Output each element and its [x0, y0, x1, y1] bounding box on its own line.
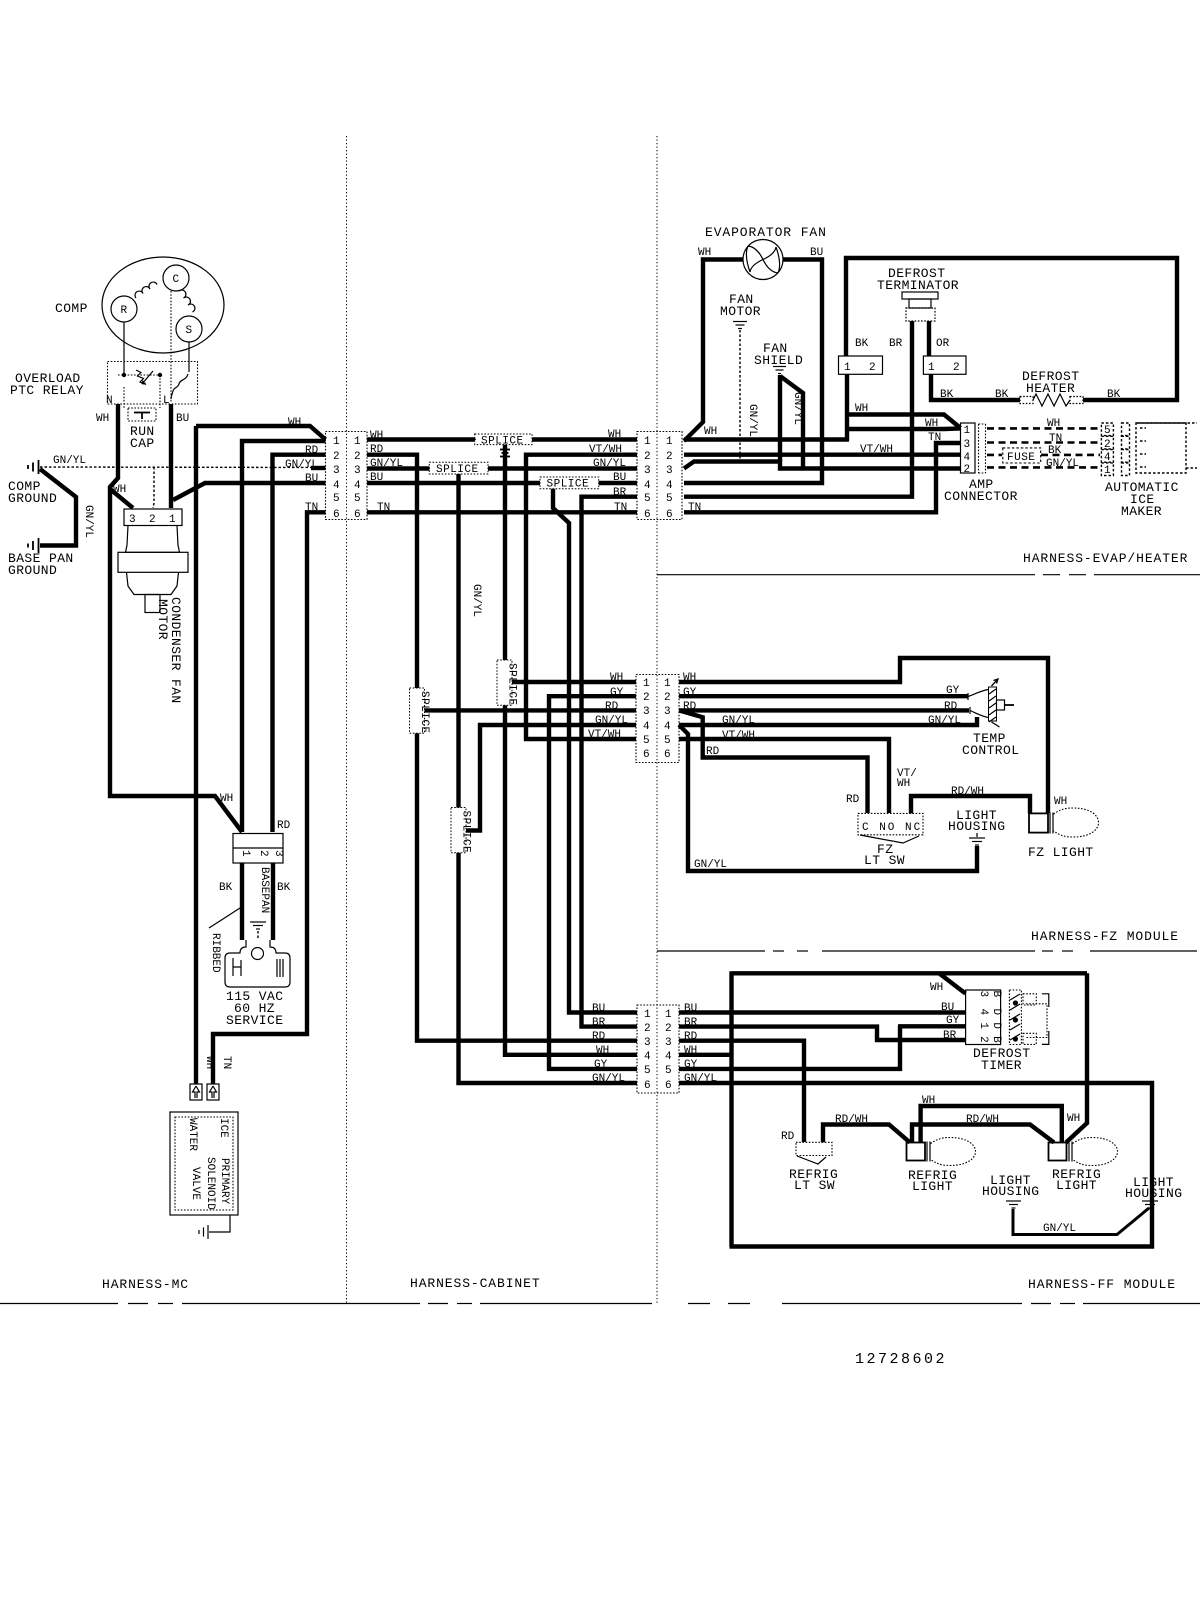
wire S to relay switch: [188, 342, 190, 372]
wire BU evap fan right: [684, 260, 822, 484]
svg-text:1: 1: [665, 1009, 672, 1021]
svg-text:GN/YL: GN/YL: [694, 859, 727, 871]
wire WH connector1 pin1 horizontal A: [196, 426, 326, 440]
svg-text:GN/YL: GN/YL: [53, 455, 86, 467]
wire RD tap to FZ pin3: [425, 708, 637, 712]
wire WH evap fan left: [684, 260, 743, 442]
svg-text:GN/YL: GN/YL: [82, 505, 94, 538]
svg-text:TERMINATOR: TERMINATOR: [877, 278, 959, 293]
wire RD/WH switch NC to FZ light: [911, 796, 1030, 813]
solenoid terminal right: [207, 1084, 219, 1100]
wire GN/YL comp ground to fan pin2 and connector pin 3 (dashed): [40, 467, 326, 508]
svg-text:6: 6: [664, 749, 671, 761]
svg-text:4: 4: [333, 480, 340, 492]
svg-text:6: 6: [644, 509, 651, 521]
wire BU FF pin1 to defrost timer: [679, 1010, 966, 1014]
wire WH vertical down to FF module: [505, 445, 637, 1055]
base pan ground symbol: [28, 538, 39, 553]
svg-text:BK: BK: [1107, 389, 1121, 401]
svg-text:SOLENOID: SOLENOID: [204, 1157, 216, 1210]
wire GY FF pin5 to defrost timer: [679, 1026, 966, 1069]
svg-text:RD: RD: [277, 820, 291, 832]
svg-text:1: 1: [666, 436, 673, 448]
wire BK basepan pin3 to service plug: [271, 863, 275, 940]
svg-text:3: 3: [333, 465, 340, 477]
svg-text:2: 2: [644, 451, 651, 463]
condenser fan motor connector 3 2 1: [124, 509, 182, 526]
svg-text:1: 1: [844, 362, 851, 374]
svg-text:4: 4: [643, 721, 650, 733]
svg-text:BK: BK: [1048, 445, 1062, 457]
svg-text:2: 2: [354, 451, 361, 463]
svg-text:1: 1: [644, 1009, 651, 1021]
dashed wire BK with fuse to ice maker: [987, 454, 1002, 457]
svg-text:D: D: [990, 1022, 1002, 1029]
svg-text:5: 5: [1104, 425, 1111, 437]
svg-text:2: 2: [666, 451, 673, 463]
wire GY FZ pin2 to FF pin5: [549, 696, 637, 1069]
wire GN/YL row3 C1 to C2: [367, 466, 637, 470]
svg-text:TN: TN: [1049, 433, 1062, 445]
svg-text:4: 4: [964, 452, 971, 464]
svg-text:GY: GY: [946, 1015, 960, 1027]
svg-text:1: 1: [354, 436, 361, 448]
wire BK basepan pin1 to service plug: [240, 863, 244, 940]
svg-text:RIBBED: RIBBED: [209, 933, 221, 973]
wire WH C2 pin1 to junction: [684, 437, 849, 441]
wire C to relay L (dotted): [170, 291, 172, 403]
wire RD connector1 pin2 to basepan pin3: [273, 455, 326, 832]
relay switch contact: [171, 374, 188, 399]
wire TN row6 C1 to C2: [367, 510, 637, 514]
vertical splice on GN/YL wire: [451, 804, 472, 857]
svg-text:MOTOR: MOTOR: [155, 599, 170, 640]
svg-text:RD/WH: RD/WH: [835, 1114, 868, 1126]
svg-text:BU: BU: [613, 472, 626, 484]
svg-text:PRIMARY: PRIMARY: [218, 1158, 230, 1205]
svg-text:LT SW: LT SW: [794, 1178, 835, 1193]
svg-text:1: 1: [964, 425, 971, 437]
svg-text:L: L: [163, 395, 170, 407]
wire BR FF pin2 to defrost timer: [679, 1027, 966, 1040]
svg-text:6: 6: [665, 1080, 672, 1092]
svg-text:3: 3: [666, 465, 673, 477]
PTC relay internal contact line: [118, 374, 160, 376]
svg-text:HARNESS-CABINET: HARNESS-CABINET: [410, 1276, 541, 1291]
svg-text:4: 4: [666, 480, 673, 492]
svg-text:RD: RD: [846, 794, 860, 806]
ice maker connector pins 5 2 4 1: [1101, 423, 1129, 477]
svg-text:WH: WH: [1054, 796, 1067, 808]
svg-text:CONNECTOR: CONNECTOR: [944, 489, 1018, 504]
svg-text:RD/WH: RD/WH: [966, 1114, 999, 1126]
svg-text:WH: WH: [220, 793, 233, 805]
svg-text:1: 1: [977, 1022, 989, 1029]
connector C2 body: [637, 432, 682, 520]
svg-text:BK: BK: [219, 882, 233, 894]
harness bottom boundary line: [0, 1303, 1200, 1305]
svg-text:3: 3: [664, 706, 671, 718]
wire WH heater connector to AMP pin1: [847, 374, 961, 441]
svg-text:4: 4: [977, 1009, 989, 1016]
svg-text:BK: BK: [855, 338, 869, 350]
svg-text:LT SW: LT SW: [864, 853, 905, 868]
winding coil R-C: [135, 282, 157, 298]
svg-text:RD: RD: [592, 1031, 606, 1043]
svg-text:TN: TN: [220, 1056, 232, 1069]
timer motor bracket: [1023, 994, 1036, 1005]
dashed wire WH to ice maker: [987, 427, 1100, 430]
wire RD FZ pin3 to FZ light switch C: [679, 710, 868, 813]
FZ light switch flap: [860, 835, 919, 843]
svg-text:BU: BU: [941, 1002, 954, 1014]
svg-text:FZ LIGHT: FZ LIGHT: [1028, 845, 1094, 860]
svg-text:BU: BU: [305, 473, 318, 485]
svg-text:WH: WH: [925, 418, 938, 430]
svg-text:5: 5: [354, 493, 361, 505]
svg-text:1: 1: [1104, 465, 1111, 477]
compressor terminal C: [163, 265, 189, 291]
wire GN/YL splice tap up to FZ pin4: [466, 725, 636, 831]
wire WH row1 C1 to C2: [367, 437, 637, 441]
svg-text:2: 2: [257, 850, 269, 857]
svg-text:GN/YL: GN/YL: [592, 1073, 625, 1085]
svg-text:TN: TN: [688, 502, 701, 514]
wire GN/YL fan shield diagonal branch: [780, 376, 803, 469]
svg-text:SHIELD: SHIELD: [754, 353, 803, 368]
wire VT/WH C2 pin2 to AMP pin4: [684, 453, 961, 457]
svg-text:SPLICE: SPLICE: [506, 663, 518, 706]
svg-text:BR: BR: [943, 1030, 957, 1042]
wire GN/YL stub at connector pin 3: [311, 466, 326, 470]
comp ground symbol: [28, 460, 39, 474]
AMP connector body: [961, 423, 976, 473]
AMP connector mating half (dashed): [979, 424, 986, 473]
solenoid terminal left: [190, 1084, 202, 1100]
svg-text:RD: RD: [305, 445, 319, 457]
svg-text:4: 4: [644, 480, 651, 492]
svg-text:GN/YL: GN/YL: [746, 404, 758, 437]
refrig light 1 bulb: [907, 1138, 976, 1166]
svg-text:BU: BU: [592, 1003, 605, 1015]
wire GN/YL fan motor ground (dashed): [739, 330, 741, 460]
wire RD/WH light1 to light2: [912, 1125, 1054, 1143]
fan motor ground symbol: [733, 322, 747, 329]
ice water primary solenoid valve box: [170, 1112, 238, 1215]
svg-text:RD: RD: [605, 701, 619, 713]
wire BU row4 C1 to splice to C2: [367, 481, 637, 485]
svg-text:2: 2: [665, 1023, 672, 1035]
svg-text:5: 5: [666, 493, 673, 505]
svg-text:ICE: ICE: [217, 1118, 229, 1138]
svg-text:HARNESS-FZ MODULE: HARNESS-FZ MODULE: [1031, 929, 1179, 944]
wire TN connector1 pin6 to solenoid: [213, 512, 326, 1084]
wire GN/YL housing1 to housing2: [1013, 1208, 1149, 1235]
svg-text:B: B: [990, 1036, 1002, 1043]
svg-text:2: 2: [149, 514, 156, 526]
svg-text:COMP: COMP: [55, 301, 88, 316]
svg-text:3: 3: [644, 1037, 651, 1049]
svg-text:1: 1: [664, 678, 671, 690]
svg-text:2: 2: [953, 362, 960, 374]
svg-text:N: N: [106, 395, 113, 407]
svg-text:GN/YL: GN/YL: [928, 715, 961, 727]
overload PTC relay box: [108, 362, 198, 405]
light housing ground: [969, 833, 985, 845]
svg-text:3: 3: [354, 465, 361, 477]
svg-text:WH: WH: [855, 403, 868, 415]
svg-text:GN/YL: GN/YL: [285, 459, 318, 471]
compressor terminal R: [111, 296, 137, 322]
svg-text:GY: GY: [946, 685, 960, 697]
run capacitor RUN CAP: [128, 408, 156, 421]
svg-text:2: 2: [664, 692, 671, 704]
svg-text:3: 3: [977, 991, 989, 998]
wire BR corner row5 to FF pin2: [582, 497, 638, 1027]
svg-text:1: 1: [333, 436, 340, 448]
svg-text:MOTOR: MOTOR: [720, 304, 761, 319]
svg-text:3: 3: [129, 514, 136, 526]
svg-text:WH: WH: [1067, 1113, 1080, 1125]
WH splice tap mark: [500, 450, 510, 457]
svg-text:HOUSING: HOUSING: [982, 1184, 1039, 1199]
svg-text:GN/YL: GN/YL: [791, 392, 803, 425]
svg-text:GN/YL: GN/YL: [1043, 1223, 1076, 1235]
svg-text:WH: WH: [922, 1095, 935, 1107]
svg-text:4: 4: [644, 1051, 651, 1063]
harness FZ boundary line: [657, 950, 1197, 952]
splice on GN/YL row: [425, 462, 493, 476]
svg-text:RD: RD: [781, 1131, 795, 1143]
svg-text:GN/YL: GN/YL: [1046, 458, 1079, 470]
svg-text:HOUSING: HOUSING: [948, 819, 1005, 834]
svg-text:2: 2: [643, 692, 650, 704]
wire BK right connector to heater: [931, 374, 1020, 400]
svg-text:S: S: [186, 325, 193, 337]
wire VT/WH corner row2 to FZ pin5: [526, 455, 637, 739]
svg-text:5: 5: [643, 735, 650, 747]
svg-text:BK: BK: [940, 389, 954, 401]
svg-text:6: 6: [643, 749, 650, 761]
light housing 2 ground: [1142, 1201, 1158, 1208]
vertical splice on RD wire: [410, 685, 431, 738]
wire RD/WH switch to refrig light 1: [823, 1125, 910, 1143]
condenser fan motor body: [126, 526, 180, 553]
svg-text:6: 6: [666, 509, 673, 521]
connector C1 body: [326, 432, 368, 520]
svg-text:1: 1: [644, 436, 651, 448]
basepan connector: [233, 834, 283, 864]
wire BK defrost heater loop: [846, 258, 1177, 400]
fuse box: [1003, 448, 1041, 463]
connector C2 pin numbers: [644, 436, 673, 521]
svg-text:OR: OR: [936, 338, 950, 350]
winding coil C-S: [179, 290, 195, 312]
defrost heater resistor: [1020, 394, 1083, 406]
svg-text:CONTROL: CONTROL: [962, 743, 1019, 758]
svg-text:BR: BR: [592, 1017, 606, 1029]
heater connector left 1 2: [839, 356, 883, 374]
harness evap/heater boundary line: [657, 574, 1200, 576]
svg-text:WH: WH: [698, 247, 711, 259]
svg-text:5: 5: [644, 493, 651, 505]
svg-text:TN: TN: [928, 432, 941, 444]
ice maker body (dashed): [1136, 423, 1186, 473]
wire TN C2 pin6 to AMP pin3: [684, 443, 961, 512]
svg-text:WH: WH: [596, 1045, 609, 1057]
svg-text:TN: TN: [614, 502, 627, 514]
temp control symbol: [968, 679, 1014, 727]
svg-text:HEATER: HEATER: [1026, 381, 1075, 396]
wire WH FZ pin1 to FZ light: [679, 658, 1048, 813]
PTC element symbol: [136, 370, 146, 385]
wire BR terminator to C2 pin5: [684, 321, 912, 497]
wire GN/YL fan shield ground: [778, 375, 782, 462]
svg-text:VT/WH: VT/WH: [589, 444, 622, 456]
wire R to relay: [123, 322, 125, 374]
svg-text:WH: WH: [1047, 418, 1060, 430]
wire RD row2 from C1 down to FF pin3: [367, 455, 637, 1041]
svg-text:5: 5: [665, 1065, 672, 1077]
svg-text:4: 4: [354, 480, 361, 492]
heater connector right 1 2: [923, 356, 966, 374]
svg-text:GN/YL: GN/YL: [470, 584, 482, 617]
svg-text:R: R: [121, 305, 128, 317]
svg-text:2: 2: [644, 1023, 651, 1035]
svg-text:6: 6: [354, 509, 361, 521]
115 VAC service plug: [225, 940, 290, 987]
light housing 1 ground: [1006, 1201, 1021, 1208]
solenoid ground wire: [209, 1215, 230, 1232]
svg-text:12728602: 12728602: [855, 1351, 947, 1368]
svg-text:HARNESS-FF MODULE: HARNESS-FF MODULE: [1028, 1277, 1176, 1292]
svg-text:4: 4: [665, 1051, 672, 1063]
svg-text:WH: WH: [113, 484, 126, 496]
connector C3 (FZ) body: [636, 675, 679, 763]
svg-text:GY: GY: [610, 687, 624, 699]
harness divider vertical MC/cabinet: [346, 136, 348, 1303]
svg-text:HOUSING: HOUSING: [1125, 1186, 1182, 1201]
svg-text:2: 2: [869, 362, 876, 374]
svg-text:SPLICE: SPLICE: [481, 435, 524, 447]
svg-text:WH: WH: [930, 982, 943, 994]
svg-text:1: 1: [643, 678, 650, 690]
splice on BU row: [536, 477, 604, 491]
svg-text:GN/YL: GN/YL: [593, 458, 626, 470]
wire BU branch from connector pin 4: [173, 483, 326, 500]
defrost timer body: [966, 990, 1049, 1045]
svg-text:RD/WH: RD/WH: [951, 786, 984, 798]
timer heater bar (hatched): [1009, 990, 1021, 1045]
svg-text:4: 4: [1104, 452, 1111, 464]
wire WH from relay N down: [110, 404, 242, 832]
svg-text:WH: WH: [897, 778, 910, 790]
svg-text:4: 4: [664, 721, 671, 733]
connector C3 pin numbers: [643, 678, 671, 761]
svg-text:2: 2: [977, 1036, 989, 1043]
wire BU vertical down to FF pin1: [553, 489, 637, 1013]
wire GN/YL vertical down to FF pin6: [459, 474, 638, 1083]
svg-text:C: C: [173, 274, 180, 286]
wire GN/YL to base pan ground: [40, 469, 76, 546]
svg-text:VALVE: VALVE: [189, 1167, 201, 1200]
svg-text:6: 6: [644, 1080, 651, 1092]
svg-text:VT/WH: VT/WH: [588, 729, 621, 741]
wire WH branch to condenser fan pin 3: [110, 489, 133, 508]
splice on WH row: [471, 434, 537, 447]
svg-text:3: 3: [644, 465, 651, 477]
svg-text:GROUND: GROUND: [8, 563, 57, 578]
connector C4 pin numbers: [644, 1009, 672, 1092]
svg-text:1: 1: [239, 850, 251, 857]
wire GN/YL branch to housing ground bus: [679, 725, 977, 871]
svg-text:BR: BR: [889, 338, 903, 350]
svg-text:B: B: [990, 991, 1002, 998]
wire OR terminator to connector 1-2: [927, 321, 931, 356]
svg-text:2: 2: [333, 451, 340, 463]
svg-text:CAP: CAP: [130, 436, 155, 451]
svg-text:5: 5: [664, 735, 671, 747]
svg-text:BASEPAN: BASEPAN: [258, 867, 270, 913]
wire RD to temp control: [679, 708, 969, 712]
dashed wire TN to ice maker: [987, 441, 1100, 444]
wire GN/YL FZ pin4 to temp control: [679, 717, 977, 725]
svg-text:WH: WH: [203, 1056, 215, 1069]
svg-text:BU: BU: [810, 247, 823, 259]
connector C1 pin numbers: [333, 436, 361, 521]
svg-text:C NO NC: C NO NC: [862, 822, 922, 834]
svg-text:BK: BK: [277, 882, 291, 894]
svg-text:TN: TN: [305, 502, 318, 514]
harness divider vertical cabinet/modules: [656, 136, 658, 1303]
wire WH tap to FZ pin1: [512, 680, 636, 684]
FZ light switch box C NO NC: [858, 813, 923, 834]
wire WH vertical to solenoid: [194, 426, 198, 1084]
svg-text:FUSE: FUSE: [1007, 452, 1035, 464]
svg-text:BR: BR: [613, 487, 627, 499]
svg-text:3: 3: [665, 1037, 672, 1049]
svg-text:HARNESS-MC: HARNESS-MC: [102, 1277, 189, 1292]
svg-text:HARNESS-EVAP/HEATER: HARNESS-EVAP/HEATER: [1023, 551, 1188, 566]
svg-text:D: D: [990, 1009, 1002, 1016]
svg-text:2: 2: [1104, 439, 1111, 451]
refrig light 2 bulb: [1049, 1138, 1118, 1166]
defrost terminator symbol: [902, 292, 938, 321]
wire VT/WH FZ pin5 to switch NO: [679, 739, 889, 813]
svg-text:LIGHT: LIGHT: [1056, 1178, 1097, 1193]
compressor terminal S: [176, 316, 202, 342]
svg-text:TIMER: TIMER: [981, 1058, 1022, 1073]
svg-text:GY: GY: [594, 1059, 608, 1071]
vertical splice on WH wire: [497, 657, 518, 710]
svg-text:VT/WH: VT/WH: [860, 444, 893, 456]
evaporator fan symbol: [743, 240, 783, 280]
svg-text:5: 5: [644, 1065, 651, 1077]
wire GY FZ pin2 to temp control: [679, 694, 968, 698]
svg-text:6: 6: [333, 509, 340, 521]
svg-text:GROUND: GROUND: [8, 491, 57, 506]
dashed wire GN/YL to ice maker: [987, 466, 1100, 469]
wire GN/YL FF pin6 to light housing 2 and bottom bus: [679, 1083, 1152, 1247]
svg-text:WATER: WATER: [186, 1118, 198, 1151]
fan shield ground symbol: [773, 367, 786, 374]
svg-text:WH: WH: [704, 426, 717, 438]
wire WH connector1 pin1 horizontal B and vertical to basepan pin1: [242, 441, 326, 832]
svg-text:WH: WH: [96, 413, 109, 425]
connector C4 (FF) body: [637, 1005, 679, 1093]
svg-text:3: 3: [272, 850, 284, 857]
svg-text:SERVICE: SERVICE: [226, 1013, 283, 1028]
